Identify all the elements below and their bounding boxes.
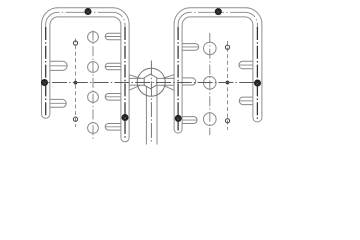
rod center node (left U) xyxy=(74,81,78,85)
lug stub S4 (left U right leg) xyxy=(105,63,124,70)
lug stub S3 (left U right leg) xyxy=(105,33,124,40)
left U tube centerline top xyxy=(46,12,125,30)
weld dot left leg (right U) xyxy=(175,115,182,122)
left fork flattened end xyxy=(129,75,140,91)
right U right leg centerline xyxy=(256,27,258,120)
rod top ball (left U) xyxy=(73,41,77,45)
lug stub S5 (left U right leg) xyxy=(105,94,124,101)
hole circle H3 xyxy=(88,92,99,103)
rod dashed line (left U) xyxy=(75,39,77,128)
hole circle H1 xyxy=(88,32,99,43)
lug stub S1 (left U left leg) xyxy=(47,61,67,70)
weld dot left leg (left U) xyxy=(41,79,48,86)
weld dot right leg (left U) xyxy=(122,114,129,121)
hub cross-tube left bottom edge xyxy=(129,84,144,86)
hole centerline (right U) xyxy=(209,33,211,135)
hole centerline (left U) xyxy=(92,31,94,140)
main horizontal centerline xyxy=(43,82,259,84)
right U left leg centerline xyxy=(177,27,179,131)
hub cross-tube end cap (right U left leg) xyxy=(176,78,196,85)
weld dot right leg (right U) xyxy=(254,80,261,87)
lug stub S7 (right U left leg) xyxy=(176,44,199,51)
weld dot top (right U) xyxy=(215,8,222,15)
lug stub S2 (left U left leg) xyxy=(47,99,66,107)
hub hex nut xyxy=(144,74,157,89)
hole circle H4 xyxy=(88,123,99,134)
weld dot top (left U) xyxy=(85,8,92,15)
left U tube band xyxy=(42,8,130,142)
hole circle H2 xyxy=(88,62,99,73)
left U left leg centerline xyxy=(45,27,47,116)
lug stub S9 (right U right leg) xyxy=(239,61,259,69)
lug stub S10 (right U right leg) xyxy=(239,97,259,105)
hub vertical centerline xyxy=(150,61,152,142)
left U right leg centerline xyxy=(124,27,126,140)
rod center node (right U) xyxy=(226,81,230,85)
lug stub S8 (right U left leg) xyxy=(176,117,197,124)
hub down-tube right edge xyxy=(156,86,158,145)
hub down-tube left edge xyxy=(145,86,147,145)
rod bottom ball (right U) xyxy=(225,119,229,123)
right U tube centerline top xyxy=(178,12,257,30)
hole circle H6 xyxy=(204,77,217,90)
rod dashed line (right U) xyxy=(227,41,229,130)
hub sleeve circle xyxy=(137,68,165,96)
right fork flattened end xyxy=(163,75,174,91)
rod bottom ball (left U) xyxy=(73,117,77,121)
hole circle H7 xyxy=(204,113,217,126)
rod top ball (right U) xyxy=(225,45,229,49)
hub cross-tube right top edge xyxy=(157,77,175,79)
hub cross-tube right bottom edge xyxy=(157,84,175,86)
right U tube band xyxy=(174,8,262,133)
hole circle H5 xyxy=(204,42,217,55)
lug stub S6 (left U right leg) xyxy=(105,123,124,130)
hub cross-tube left top edge xyxy=(129,77,144,79)
